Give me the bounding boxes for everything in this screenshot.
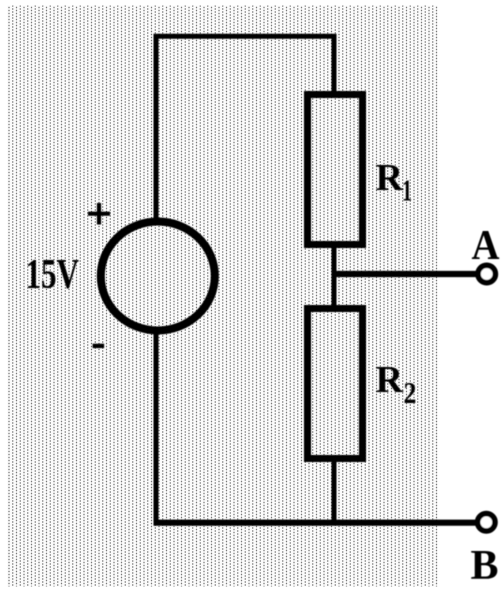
svg-text:R: R — [376, 359, 404, 401]
svg-text:15V: 15V — [26, 252, 80, 298]
svg-text:B: B — [471, 543, 499, 589]
svg-text:R: R — [376, 157, 404, 199]
svg-text:A: A — [472, 223, 501, 269]
svg-text:2: 2 — [404, 375, 417, 410]
svg-text:1: 1 — [402, 173, 412, 208]
